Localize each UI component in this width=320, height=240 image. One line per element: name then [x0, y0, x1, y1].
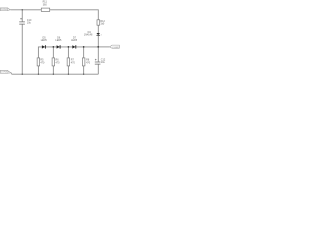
resistor R15	[67, 58, 70, 66]
svg-text:10u: 10u	[101, 61, 106, 64]
LED D11	[42, 45, 45, 48]
wire drop R14	[52, 47, 54, 74]
svg-text:470: 470	[40, 61, 45, 64]
svg-text:LED5: LED5	[41, 39, 48, 42]
wire LED bus	[38, 47, 98, 58]
svg-text:10u: 10u	[27, 21, 32, 24]
wire C1 branch	[21, 10, 23, 74]
junction dot bottom R15	[68, 74, 69, 75]
capacitor C2	[95, 59, 101, 64]
junction dot bottom R14	[53, 74, 54, 75]
svg-text:1k0: 1k0	[100, 23, 105, 26]
svg-text:470: 470	[56, 61, 61, 64]
svg-text:LED5: LED5	[55, 39, 62, 42]
capacitor C1	[19, 18, 25, 24]
svg-text:CON3: CON3	[1, 72, 8, 74]
svg-text:1N4148: 1N4148	[84, 34, 93, 37]
resistor R14	[52, 58, 55, 66]
connector CON3	[0, 70, 11, 73]
connector CON2	[110, 45, 120, 48]
svg-text:360: 360	[43, 3, 48, 6]
junction dot bus 2	[68, 46, 70, 48]
svg-text:LED5: LED5	[71, 39, 78, 42]
wire drop R15	[67, 47, 69, 74]
junction dot bottom R13	[38, 74, 39, 75]
junction dot bus 3	[83, 46, 85, 48]
diode D4	[96, 33, 100, 35]
junction dot bottom C1	[22, 74, 23, 75]
svg-text:CON1: CON1	[1, 9, 8, 11]
wire R2 to diode	[97, 25, 99, 33]
junction dot bus 1	[53, 46, 55, 48]
connector CON1	[0, 8, 10, 11]
wire R13 bottom	[37, 66, 39, 74]
wire diode to bus and down to C2	[97, 35, 99, 74]
wire drop R16	[83, 47, 85, 74]
svg-text:470: 470	[86, 61, 91, 64]
wire bottom bus	[12, 73, 99, 75]
junction dot C1 top	[22, 9, 23, 10]
resistor R16	[82, 58, 85, 66]
LED D13	[72, 45, 75, 48]
svg-text:2: 2	[101, 35, 103, 37]
svg-text:CON2: CON2	[112, 47, 119, 49]
LED D12	[57, 45, 60, 48]
wire bottom connector elbow	[10, 73, 12, 74]
wire top horizontal	[11, 10, 99, 20]
resistor R2	[97, 20, 100, 25]
wire bus to output connector	[98, 46, 109, 48]
resistor R1	[41, 8, 49, 11]
junction dot bus right	[97, 46, 99, 48]
resistor R13	[37, 58, 40, 66]
junction dot bottom R16	[83, 74, 84, 75]
svg-text:470: 470	[71, 61, 76, 64]
